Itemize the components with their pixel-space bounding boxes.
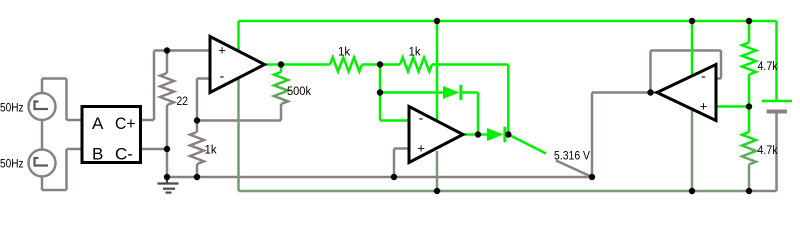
svg-text:1k: 1k (205, 145, 217, 157)
svg-text:22: 22 (177, 96, 189, 108)
svg-text:50Hz: 50Hz (0, 103, 24, 115)
svg-text:-: - (701, 68, 706, 84)
svg-text:5.316 V: 5.316 V (554, 149, 590, 163)
svg-text:+: + (417, 141, 425, 156)
svg-text:4.7k: 4.7k (758, 61, 778, 73)
svg-text:4.7k: 4.7k (758, 145, 778, 157)
svg-text:-: - (220, 68, 225, 84)
svg-text:A: A (92, 114, 104, 133)
svg-text:-: - (419, 110, 424, 126)
svg-text:1k: 1k (409, 47, 421, 59)
svg-text:C-: C- (115, 145, 133, 164)
svg-text:+: + (218, 42, 226, 57)
svg-text:50Hz: 50Hz (0, 159, 24, 171)
svg-text:C+: C+ (115, 114, 136, 133)
svg-text:1k: 1k (338, 47, 350, 59)
svg-text:B: B (92, 145, 103, 164)
svg-text:+: + (700, 99, 708, 114)
svg-text:500k: 500k (287, 86, 311, 98)
